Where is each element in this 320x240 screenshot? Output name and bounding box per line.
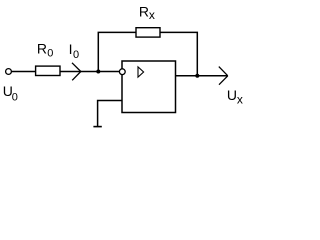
wire from junction up and right to Rx bbox=[98, 32, 136, 71]
inverting input bubble bbox=[119, 69, 125, 75]
label Ux bbox=[227, 87, 243, 107]
wire from input terminal to R0 bbox=[11, 71, 36, 73]
svg-text:0: 0 bbox=[73, 49, 79, 61]
svg-text:U: U bbox=[227, 87, 237, 103]
current arrow I0 bbox=[72, 63, 81, 81]
output wire bbox=[176, 75, 228, 77]
svg-text:R: R bbox=[139, 4, 149, 20]
svg-text:0: 0 bbox=[47, 48, 53, 60]
ground bbox=[93, 126, 101, 128]
label U0 bbox=[3, 83, 18, 104]
junction node on input wire bbox=[96, 70, 100, 74]
label I0 bbox=[69, 41, 80, 61]
svg-text:0: 0 bbox=[12, 91, 18, 103]
op-amp triangle symbol bbox=[138, 67, 144, 77]
svg-text:I: I bbox=[69, 41, 73, 57]
op-amp U1 box bbox=[122, 61, 176, 113]
label Rx bbox=[139, 4, 155, 22]
wire from R0 to amplifier input bbox=[60, 71, 120, 73]
svg-text:x: x bbox=[149, 8, 155, 22]
resistor Rx bbox=[136, 28, 160, 37]
label R0 bbox=[37, 40, 54, 59]
svg-text:R: R bbox=[37, 40, 47, 56]
wire from Rx right down to output node bbox=[160, 32, 197, 75]
svg-text:x: x bbox=[237, 93, 243, 107]
wire from box lower input to ground bbox=[98, 101, 122, 127]
output arrow head bbox=[219, 67, 228, 85]
resistor R0 bbox=[36, 66, 60, 75]
node U0 input terminal bbox=[6, 69, 12, 75]
output junction node bbox=[195, 74, 199, 78]
